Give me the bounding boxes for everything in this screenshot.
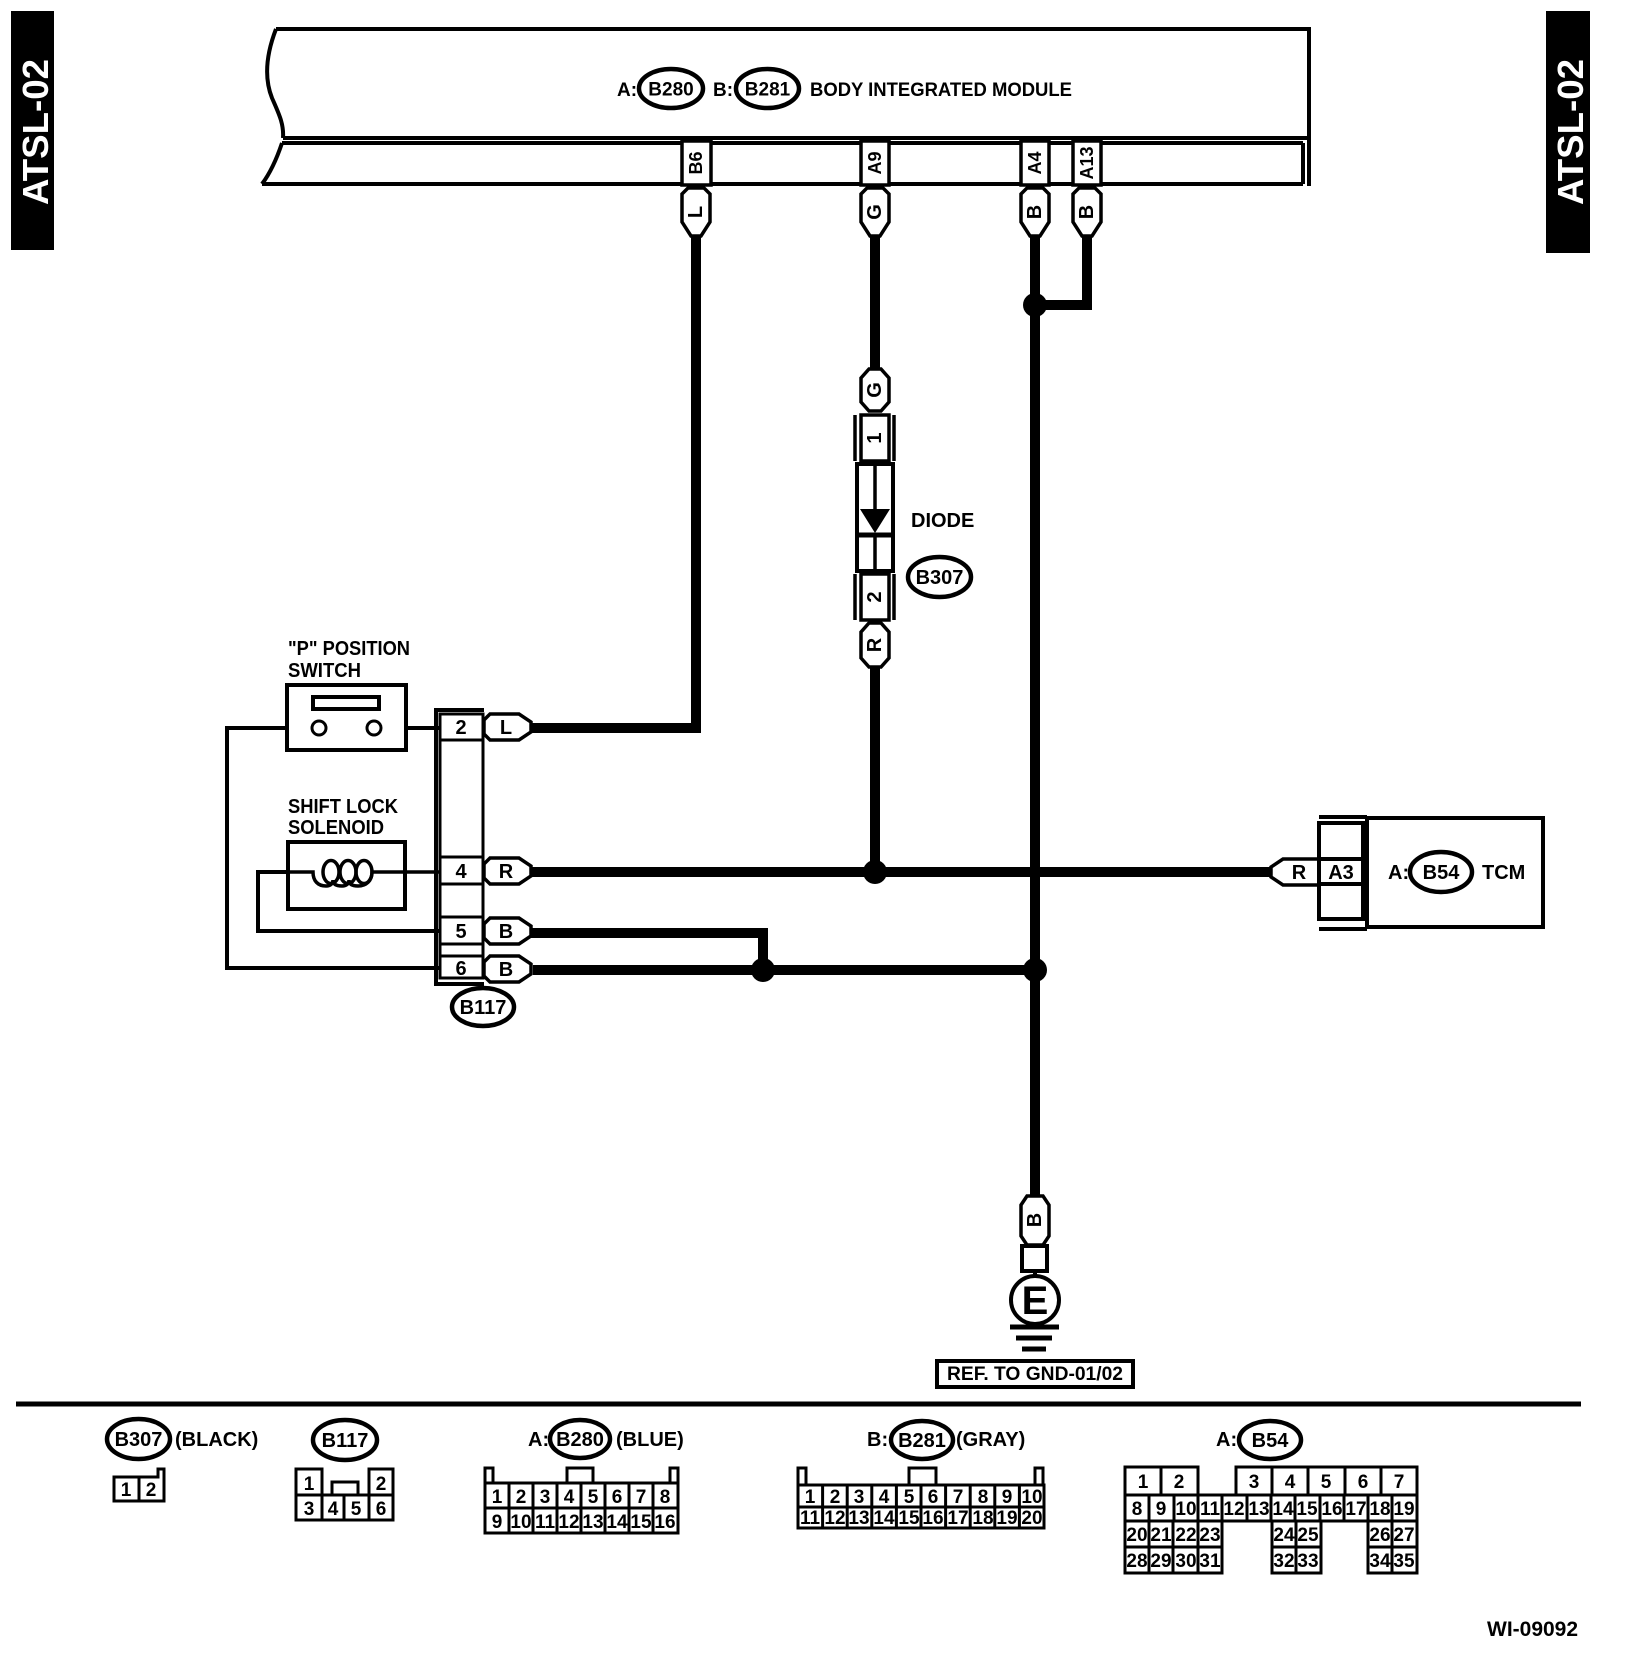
svg-text:19: 19: [1393, 1499, 1414, 1520]
svg-text:3: 3: [540, 1487, 551, 1508]
svg-text:A:: A:: [1388, 862, 1409, 884]
svg-text:A:: A:: [617, 80, 637, 101]
svg-text:1: 1: [805, 1487, 816, 1508]
svg-text:B:: B:: [713, 80, 733, 101]
svg-text:6: 6: [1358, 1472, 1369, 1493]
svg-text:1: 1: [492, 1487, 503, 1508]
svg-text:13: 13: [582, 1512, 603, 1533]
svg-text:20: 20: [1126, 1525, 1147, 1546]
svg-text:B307: B307: [916, 567, 964, 589]
svg-text:A3: A3: [1328, 862, 1354, 884]
svg-text:14: 14: [873, 1508, 895, 1529]
svg-text:A:: A:: [528, 1429, 549, 1451]
svg-text:26: 26: [1369, 1525, 1390, 1546]
svg-text:2: 2: [830, 1487, 841, 1508]
svg-text:14: 14: [1272, 1499, 1294, 1520]
svg-text:A4: A4: [1025, 151, 1045, 174]
svg-text:6: 6: [376, 1499, 387, 1520]
svg-text:B281: B281: [745, 80, 791, 101]
svg-text:5: 5: [588, 1487, 599, 1508]
svg-text:REF. TO GND-01/02: REF. TO GND-01/02: [947, 1364, 1123, 1385]
svg-text:5: 5: [904, 1487, 915, 1508]
svg-text:R: R: [499, 861, 514, 883]
svg-text:14: 14: [606, 1512, 628, 1533]
svg-text:R: R: [1292, 862, 1307, 884]
svg-text:5: 5: [1321, 1472, 1332, 1493]
svg-text:9: 9: [492, 1512, 503, 1533]
svg-text:WI-09092: WI-09092: [1487, 1618, 1578, 1641]
svg-text:5: 5: [455, 921, 466, 943]
svg-text:12: 12: [1223, 1499, 1244, 1520]
svg-text:B: B: [499, 921, 513, 943]
svg-text:BODY INTEGRATED MODULE: BODY INTEGRATED MODULE: [810, 80, 1072, 101]
svg-text:8: 8: [660, 1487, 671, 1508]
svg-text:2: 2: [1174, 1472, 1185, 1493]
svg-text:13: 13: [1248, 1499, 1269, 1520]
svg-text:A:: A:: [1216, 1429, 1237, 1451]
svg-text:B: B: [499, 959, 513, 981]
svg-text:(BLACK): (BLACK): [175, 1429, 258, 1451]
svg-text:20: 20: [1021, 1508, 1042, 1529]
svg-text:B117: B117: [460, 997, 507, 1019]
svg-text:29: 29: [1150, 1551, 1171, 1572]
svg-text:8: 8: [1132, 1499, 1143, 1520]
svg-text:B280: B280: [648, 80, 693, 101]
svg-text:B280: B280: [556, 1429, 604, 1451]
svg-text:11: 11: [535, 1512, 556, 1533]
svg-text:1: 1: [864, 432, 886, 443]
svg-text:11: 11: [800, 1508, 821, 1529]
svg-text:3: 3: [304, 1499, 315, 1520]
svg-text:25: 25: [1297, 1525, 1319, 1546]
svg-text:10: 10: [1021, 1487, 1042, 1508]
svg-text:2: 2: [516, 1487, 527, 1508]
svg-text:5: 5: [351, 1499, 362, 1520]
svg-text:B117: B117: [322, 1430, 369, 1452]
svg-text:SHIFT LOCK: SHIFT LOCK: [288, 796, 399, 818]
svg-text:21: 21: [1150, 1525, 1172, 1546]
svg-text:31: 31: [1199, 1551, 1221, 1572]
svg-text:G: G: [864, 382, 886, 398]
svg-text:B307: B307: [115, 1429, 163, 1451]
svg-text:19: 19: [996, 1508, 1017, 1529]
svg-text:A13: A13: [1077, 146, 1097, 179]
svg-text:23: 23: [1199, 1525, 1220, 1546]
svg-text:SWITCH: SWITCH: [288, 660, 361, 682]
svg-text:4: 4: [455, 861, 467, 883]
svg-text:33: 33: [1297, 1551, 1318, 1572]
svg-text:ATSL-02: ATSL-02: [1550, 59, 1591, 205]
svg-text:16: 16: [654, 1512, 675, 1533]
svg-text:3: 3: [854, 1487, 865, 1508]
svg-text:SOLENOID: SOLENOID: [288, 817, 384, 839]
svg-text:13: 13: [848, 1508, 869, 1529]
svg-text:34: 34: [1369, 1551, 1391, 1572]
svg-text:10: 10: [510, 1512, 531, 1533]
svg-text:A9: A9: [865, 151, 885, 174]
svg-text:2: 2: [376, 1474, 387, 1495]
svg-text:"P" POSITION: "P" POSITION: [288, 638, 410, 660]
svg-text:G: G: [864, 204, 886, 220]
svg-text:15: 15: [1296, 1499, 1318, 1520]
svg-text:2: 2: [455, 717, 466, 739]
svg-text:4: 4: [328, 1499, 339, 1520]
svg-text:8: 8: [978, 1487, 989, 1508]
svg-text:7: 7: [636, 1487, 647, 1508]
svg-text:24: 24: [1273, 1525, 1295, 1546]
svg-text:4: 4: [1285, 1472, 1296, 1493]
svg-text:11: 11: [1200, 1499, 1221, 1520]
svg-text:TCM: TCM: [1482, 862, 1525, 884]
svg-text:15: 15: [630, 1512, 652, 1533]
svg-text:18: 18: [972, 1508, 993, 1529]
svg-text:17: 17: [947, 1508, 968, 1529]
svg-text:4: 4: [564, 1487, 575, 1508]
svg-text:1: 1: [1138, 1472, 1149, 1493]
svg-text:6: 6: [928, 1487, 939, 1508]
svg-text:15: 15: [898, 1508, 920, 1529]
svg-text:16: 16: [1321, 1499, 1342, 1520]
svg-text:B: B: [1076, 205, 1098, 219]
svg-text:2: 2: [864, 591, 886, 602]
svg-text:E: E: [1022, 1279, 1049, 1323]
svg-text:(GRAY): (GRAY): [956, 1429, 1025, 1451]
svg-text:7: 7: [953, 1487, 964, 1508]
svg-text:9: 9: [1002, 1487, 1013, 1508]
svg-text:1: 1: [121, 1480, 132, 1501]
svg-text:ATSL-02: ATSL-02: [15, 59, 56, 205]
svg-text:6: 6: [612, 1487, 623, 1508]
svg-text:30: 30: [1175, 1551, 1196, 1572]
svg-text:1: 1: [304, 1474, 315, 1495]
svg-text:L: L: [685, 206, 707, 218]
svg-text:3: 3: [1249, 1472, 1260, 1493]
svg-text:12: 12: [558, 1512, 579, 1533]
svg-text:7: 7: [1394, 1472, 1405, 1493]
svg-text:B: B: [1024, 205, 1046, 219]
svg-text:17: 17: [1345, 1499, 1366, 1520]
svg-text:6: 6: [455, 958, 466, 980]
svg-text:32: 32: [1273, 1551, 1294, 1572]
svg-text:B281: B281: [898, 1430, 946, 1452]
svg-text:B54: B54: [1252, 1430, 1290, 1452]
svg-text:2: 2: [146, 1480, 157, 1501]
svg-text:16: 16: [922, 1508, 943, 1529]
svg-text:DIODE: DIODE: [911, 510, 974, 532]
svg-text:(BLUE): (BLUE): [616, 1429, 684, 1451]
svg-text:10: 10: [1175, 1499, 1196, 1520]
svg-text:B:: B:: [867, 1429, 888, 1451]
svg-text:4: 4: [879, 1487, 890, 1508]
svg-text:22: 22: [1175, 1525, 1196, 1546]
svg-text:B: B: [1024, 1213, 1046, 1227]
svg-text:9: 9: [1156, 1499, 1167, 1520]
svg-text:B6: B6: [686, 151, 706, 174]
svg-text:R: R: [864, 637, 886, 652]
svg-text:27: 27: [1393, 1525, 1414, 1546]
svg-text:B54: B54: [1423, 862, 1461, 884]
svg-text:L: L: [500, 717, 512, 739]
svg-text:18: 18: [1369, 1499, 1390, 1520]
svg-text:12: 12: [824, 1508, 845, 1529]
svg-text:35: 35: [1393, 1551, 1415, 1572]
svg-text:28: 28: [1126, 1551, 1147, 1572]
